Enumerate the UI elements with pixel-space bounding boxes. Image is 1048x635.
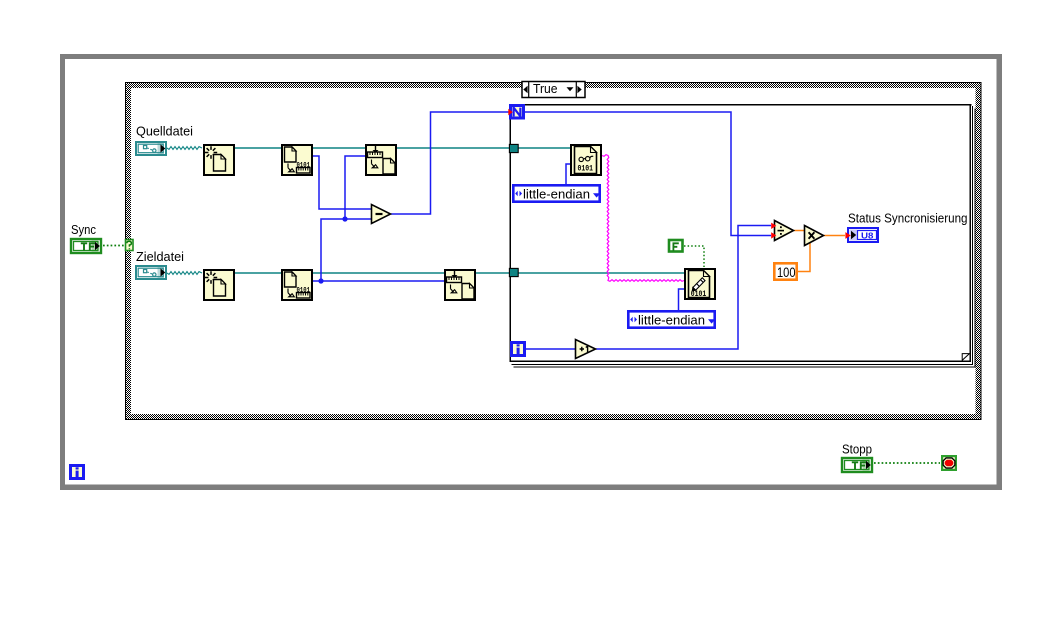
svg-text:Quelldatei: Quelldatei (136, 124, 193, 139)
boolean control Sync (71, 239, 101, 253)
while loop border (60, 54, 1002, 490)
wire: branch to set-position-1 (345, 156, 365, 219)
wire: enum1 to read byte-order input (566, 164, 570, 185)
for loop iteration terminal i (512, 343, 525, 356)
wire: +1 output to divide upper input (596, 226, 771, 350)
coercion dot divide lower (771, 232, 776, 238)
wire: N output to divide lower input (525, 112, 771, 236)
enum constant little-endian (write) (628, 311, 714, 327)
wire: green dotted Sync to case selector (103, 245, 125, 247)
wire: orange divide to multiply (794, 230, 804, 232)
wire: magenta data string (602, 155, 684, 282)
pencil glyph (692, 278, 705, 291)
for loop border (510, 104, 976, 368)
svg-text:0101: 0101 (691, 289, 707, 299)
wire: enum2 to write byte-order input (679, 289, 685, 310)
junction dot 2 (318, 278, 323, 283)
increment +1 function (576, 340, 596, 359)
svg-text:0101: 0101 (578, 164, 594, 174)
boolean constant F (669, 240, 683, 252)
wire: subtract output to N terminal (391, 112, 509, 214)
svg-text:U8: U8 (861, 230, 874, 240)
subtract function (372, 205, 391, 224)
coercion dot divide upper (771, 223, 776, 229)
tunnel bottom (file refnum) (509, 268, 518, 276)
svg-text:100: 100 (777, 265, 796, 280)
svg-text:True: True (533, 81, 558, 96)
svg-text:Stopp: Stopp (842, 442, 872, 457)
while loop iteration terminal i (71, 466, 84, 479)
wire: green dotted Stopp to loop condition (874, 462, 940, 464)
path control Zieldatei (136, 266, 166, 279)
for loop count terminal N (511, 106, 524, 119)
svg-text:little-endian: little-endian (523, 186, 590, 201)
read from binary file function (571, 145, 601, 175)
wire: Quelldatei path zigzag (167, 147, 202, 150)
open/create file function (Zieldatei) (204, 270, 234, 300)
coercion dot U8 (845, 232, 850, 239)
wire: orange 100 to multiply (798, 241, 810, 272)
tunnel top (file refnum) (509, 144, 518, 152)
wire: green dotted F constant to write (684, 246, 704, 267)
set file position function (Quelldatei) (366, 145, 396, 175)
svg-text:Sync: Sync (71, 222, 96, 237)
numeric constant 100 (774, 263, 796, 279)
svg-text:Zieldatei: Zieldatei (136, 249, 184, 264)
loop condition terminal (stop sign) (942, 456, 956, 470)
wire: orange multiply to U8 indicator (824, 235, 845, 237)
case selector label True (522, 82, 585, 98)
case structure border (125, 82, 982, 420)
case selector terminal ? (126, 240, 134, 251)
coercion dot on N (508, 109, 512, 116)
path control Quelldatei (136, 142, 166, 155)
boolean control Stopp (842, 458, 872, 472)
wire: size1 blue to subtract top input (313, 156, 371, 209)
get file size function (Zieldatei) (282, 270, 312, 300)
svg-text:Status Syncronisierung: Status Syncronisierung (848, 211, 968, 226)
open/create file function (Quelldatei) (204, 145, 234, 175)
junction dot 1 (342, 216, 347, 221)
wire: refnum teal bottom row (235, 272, 684, 274)
enum constant little-endian (read) (513, 185, 599, 201)
glasses glyph (579, 156, 593, 161)
wire: size2 blue to subtract bottom input (313, 219, 444, 281)
divide function (775, 221, 794, 241)
svg-text:little-endian: little-endian (638, 312, 705, 327)
wire: i to +1 (526, 348, 575, 350)
for loop resize fold corner (962, 354, 969, 361)
indicator terminal U8 (848, 228, 878, 242)
wire: Zieldatei path zigzag (167, 272, 202, 275)
set file position function (Zieldatei) (445, 270, 475, 300)
multiply function (805, 226, 824, 246)
wire: refnum teal top row (235, 147, 570, 149)
write to binary file function (685, 269, 715, 299)
get file size function (Quelldatei) (282, 145, 312, 175)
